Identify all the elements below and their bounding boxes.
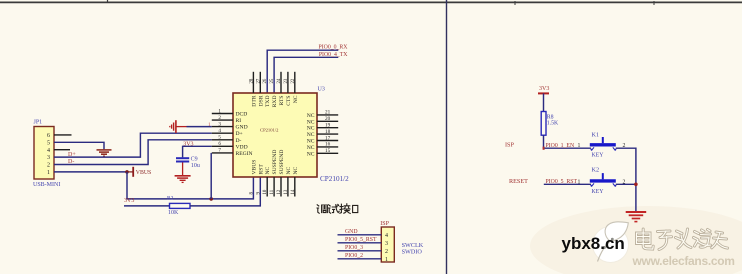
svg-text:16: 16 xyxy=(325,142,331,148)
svg-text:1: 1 xyxy=(208,122,212,128)
ground below C9 xyxy=(175,163,191,183)
wire ISP pin3 xyxy=(338,242,382,244)
wire TXD to PIO0_0_RX xyxy=(267,50,338,93)
svg-text:D+: D+ xyxy=(236,131,243,137)
node VBUS junction xyxy=(125,170,129,174)
svg-text:3: 3 xyxy=(385,241,388,247)
svg-text:18: 18 xyxy=(325,129,331,135)
ground at JP1 pin5 xyxy=(97,150,112,156)
switch K2 KEY xyxy=(590,167,617,195)
wire K1 pin2 down xyxy=(616,148,636,211)
svg-text:RTS: RTS xyxy=(279,96,285,106)
wire JP1 pin5 to ground xyxy=(54,142,104,149)
char 口 xyxy=(353,205,358,212)
svg-text:JP1: JP1 xyxy=(34,120,43,126)
wire REGIN riser xyxy=(210,153,212,199)
svg-text:NC: NC xyxy=(286,166,292,174)
svg-text:SUSPEND: SUSPEND xyxy=(279,150,285,175)
wire ISP pin2 xyxy=(338,250,382,252)
svg-text:10u: 10u xyxy=(191,163,200,169)
svg-text:PIO0_1_EN: PIO0_1_EN xyxy=(546,143,575,149)
svg-text:SUSPEND: SUSPEND xyxy=(272,150,278,175)
svg-text:19: 19 xyxy=(325,123,331,129)
svg-text:1: 1 xyxy=(578,143,581,149)
IC U3 CP2101/2 body xyxy=(233,86,349,183)
wire 3V3 to R2 xyxy=(124,205,170,207)
svg-text:6: 6 xyxy=(47,133,50,139)
wire to K2 xyxy=(544,183,591,185)
svg-text:RI: RI xyxy=(236,118,242,124)
char 接 xyxy=(340,204,343,213)
svg-text:R2: R2 xyxy=(167,196,174,202)
svg-text:KEY: KEY xyxy=(592,153,605,159)
svg-text:USB-MINI: USB-MINI xyxy=(33,182,60,188)
svg-text:DTR: DTR xyxy=(251,95,257,106)
svg-text:PIO0_3: PIO0_3 xyxy=(345,245,363,251)
svg-text:NC: NC xyxy=(307,132,315,138)
svg-text:PIO0_4_TX: PIO0_4_TX xyxy=(319,52,348,58)
ground (rotated) on chip GND pin3 xyxy=(170,120,187,133)
svg-text:5: 5 xyxy=(218,135,221,141)
wire VDD 3V3 with C9 tap xyxy=(183,146,212,157)
U3 top pin names (rotated) xyxy=(251,95,298,107)
svg-text:CTS: CTS xyxy=(286,96,292,106)
wire R2 to chip pin9 xyxy=(190,178,260,206)
svg-text:7: 7 xyxy=(218,148,221,154)
svg-text:22: 22 xyxy=(291,78,296,83)
watermark logo circle xyxy=(593,222,629,263)
svg-text:2: 2 xyxy=(218,115,221,121)
node junction K2/gnd rail xyxy=(634,183,638,187)
svg-text:2: 2 xyxy=(385,249,388,255)
svg-text:NC: NC xyxy=(293,166,299,174)
svg-text:VBUS: VBUS xyxy=(251,160,257,175)
svg-text:NC: NC xyxy=(307,139,315,145)
svg-text:17: 17 xyxy=(325,135,331,141)
sheet vertical divider xyxy=(446,0,448,274)
svg-text:ybx8.cn: ybx8.cn xyxy=(562,234,625,253)
wire VBUS rail down and right to chip pin8 xyxy=(127,172,253,199)
svg-text:NC: NC xyxy=(307,145,315,151)
svg-text:GND: GND xyxy=(345,229,358,235)
connector JP1 xyxy=(33,120,60,188)
svg-text:1.5K: 1.5K xyxy=(547,120,559,126)
svg-text:D-: D- xyxy=(236,138,242,144)
svg-text:NC: NC xyxy=(307,119,315,125)
svg-text:1: 1 xyxy=(218,108,221,114)
resistor R8 1.5K xyxy=(541,112,559,136)
svg-text:NC: NC xyxy=(293,95,299,103)
svg-text:11: 11 xyxy=(270,189,275,194)
svg-text:U3: U3 xyxy=(318,86,325,92)
svg-text:25: 25 xyxy=(270,78,275,83)
svg-text:27: 27 xyxy=(256,78,261,83)
title 调试接口 (drawn strokes) xyxy=(317,204,358,214)
resistor R2 10K xyxy=(167,196,190,217)
svg-text:CP2101/2: CP2101/2 xyxy=(320,175,349,183)
svg-text:KEY: KEY xyxy=(592,189,605,195)
U3 top pin numbers (rotated) xyxy=(249,78,295,83)
svg-text:4: 4 xyxy=(218,128,221,134)
svg-text:NC: NC xyxy=(307,126,315,132)
svg-text:RXD: RXD xyxy=(272,96,278,108)
svg-text:TXD: TXD xyxy=(265,96,271,108)
svg-text:2: 2 xyxy=(47,163,50,169)
svg-text:REGIN: REGIN xyxy=(236,151,253,157)
svg-text:CP2101/2: CP2101/2 xyxy=(260,128,279,133)
power port VBUS xyxy=(127,167,151,177)
svg-text:ISP: ISP xyxy=(505,141,515,148)
svg-text:PIO0_5_RST: PIO0_5_RST xyxy=(345,237,377,243)
wire GND pin3 xyxy=(187,126,212,128)
svg-text:DSR: DSR xyxy=(258,95,264,106)
svg-text:SWDIO: SWDIO xyxy=(402,248,423,255)
U3 left pin numbers xyxy=(218,108,221,153)
wire R8 to key line xyxy=(544,135,592,148)
wire JP1 pin6 stub xyxy=(54,134,72,136)
svg-text:www.elecfans.com: www.elecfans.com xyxy=(632,254,735,268)
wire RXD to PIO0_4_TX xyxy=(274,57,338,93)
svg-text:4: 4 xyxy=(47,148,50,154)
watermark 电子发烧友 (drawn strokes, embossed) xyxy=(637,229,728,250)
U3 left pin names xyxy=(236,112,253,157)
svg-text:23: 23 xyxy=(284,78,289,83)
char 试 xyxy=(328,205,330,213)
svg-text:3V3: 3V3 xyxy=(124,198,134,204)
U3 bottom pin stubs xyxy=(267,177,295,197)
U3 top pin stubs xyxy=(253,72,294,93)
svg-text:NC: NC xyxy=(307,151,315,157)
svg-text:DCD: DCD xyxy=(236,112,248,118)
svg-text:15: 15 xyxy=(325,148,331,154)
wire ISP pin4 GND xyxy=(338,234,382,236)
svg-text:1: 1 xyxy=(385,257,388,263)
svg-text:10K: 10K xyxy=(168,210,179,216)
wire JP1 pin4 stub xyxy=(54,149,70,151)
U3 right pin names xyxy=(307,113,315,157)
U3 bottom pin names (rotated) xyxy=(251,150,298,175)
svg-text:12: 12 xyxy=(277,189,282,194)
svg-text:NC: NC xyxy=(265,166,271,174)
svg-text:20: 20 xyxy=(325,116,331,122)
ground (right section) xyxy=(626,212,647,222)
svg-text:24: 24 xyxy=(277,78,282,83)
svg-text:K2: K2 xyxy=(592,167,600,174)
wire ISP pin1 xyxy=(338,258,382,260)
sheet border top line xyxy=(0,0,742,5)
wire JP1 pin2 D- xyxy=(54,140,212,165)
svg-text:NC: NC xyxy=(307,113,315,119)
svg-text:13: 13 xyxy=(284,189,289,194)
watermark backdrop tint xyxy=(530,206,742,274)
svg-text:10: 10 xyxy=(263,189,268,194)
node junction R8/key line xyxy=(543,147,545,150)
U3 right pin numbers xyxy=(325,110,331,154)
power port 3V3 (right section) xyxy=(538,86,549,112)
connector ISP header xyxy=(380,221,394,263)
svg-text:PIO0_0_RX: PIO0_0_RX xyxy=(319,45,349,51)
switch K1 KEY xyxy=(590,132,617,159)
svg-text:VDD: VDD xyxy=(236,144,248,150)
svg-text:RST: RST xyxy=(258,164,264,175)
U3 bottom pin numbers (rotated) xyxy=(249,189,295,194)
wire K2 pin2 to gnd rail xyxy=(616,183,636,185)
wire JP1 pin1 VBUS xyxy=(54,171,127,173)
svg-text:C9: C9 xyxy=(191,156,198,162)
svg-text:PIO0_2: PIO0_2 xyxy=(345,253,363,259)
svg-text:3: 3 xyxy=(47,155,50,161)
U3 right pin stubs xyxy=(317,115,338,153)
svg-text:3: 3 xyxy=(218,121,221,127)
svg-text:ISP: ISP xyxy=(380,221,389,227)
wire JP1 pin3 D+ xyxy=(54,133,212,157)
svg-text:1: 1 xyxy=(47,170,50,176)
char 调 xyxy=(317,205,319,213)
svg-text:28: 28 xyxy=(249,78,254,83)
svg-text:GND: GND xyxy=(236,125,248,131)
svg-text:5: 5 xyxy=(47,140,50,146)
svg-text:RESET: RESET xyxy=(509,178,528,185)
svg-text:26: 26 xyxy=(263,78,268,83)
svg-text:4: 4 xyxy=(385,233,388,239)
op wires PIO0_0_RX / PIO0_4_TX xyxy=(267,45,348,93)
svg-text:3V3: 3V3 xyxy=(539,86,549,92)
svg-text:K1: K1 xyxy=(592,132,600,139)
svg-text:VBUS: VBUS xyxy=(136,170,151,176)
svg-text:14: 14 xyxy=(291,189,296,194)
svg-text:6: 6 xyxy=(218,141,221,147)
node junction REGIN/VBUS xyxy=(209,197,213,201)
capacitor C9 xyxy=(176,156,200,169)
svg-text:21: 21 xyxy=(325,110,331,116)
U3 left pin stubs xyxy=(212,114,233,153)
